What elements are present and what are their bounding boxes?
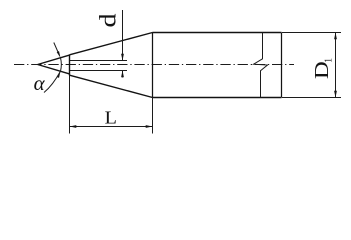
main taper lower edge [70,75,153,97]
svg-text:D: D [311,61,333,79]
L left extension line [69,76,71,134]
d upper arrow (points down) [121,54,124,61]
cylinder right end [281,33,283,98]
cone tip lower edge [38,65,70,74]
tip cone base vertical edge [69,55,71,76]
d lower arrow (points up) [121,71,124,78]
cylinder bottom edge [153,97,282,99]
main taper upper edge [70,33,153,55]
L left arrow [70,125,77,128]
svg-text:d: d [95,13,121,27]
D1 upper extension line [282,32,341,34]
alpha arc between edges [60,58,63,71]
L right arrow [146,125,153,128]
svg-text:1: 1 [324,58,335,63]
D1 bottom arrow (points down) [334,91,337,98]
alpha upper arrow (tip on upper cone edge, points toward axis) [57,51,61,58]
svg-text:L: L [105,109,117,128]
L dimension line [70,126,153,128]
alpha upper extension segment [54,43,60,56]
svg-text:α: α [34,71,46,95]
cylinder left face [152,33,154,98]
d dimension line lower part [122,71,124,78]
d dimension line upper part [122,10,124,61]
cone tip upper edge [38,55,70,64]
centerline (axis, dash-dot) [14,64,294,66]
D1 lower extension line [282,97,341,99]
break line (zigzag) [254,33,268,98]
L right extension line [152,98,154,134]
alpha lower arc tail [44,71,61,92]
alpha lower arrow (tip on lower cone edge, points toward axis) [57,71,61,78]
cylinder top edge [153,32,282,34]
d upper extension line [70,60,127,62]
D1 top arrow (points up) [334,33,337,40]
D1 dimension line [335,33,337,98]
d lower extension line [70,70,127,72]
